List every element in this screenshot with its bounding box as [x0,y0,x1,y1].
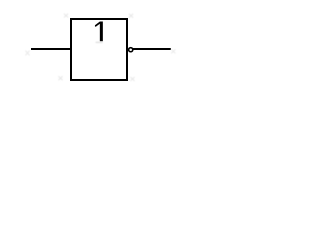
label "1" (gate function, drawn as path) [95,22,103,42]
inverter gate U1 (IEC box) [71,19,127,80]
wire: input segment [31,48,71,50]
ghost mark: box top-right corner [129,14,133,18]
ghost foot under label [96,42,103,43]
ghost mark: box top-left corner [64,14,68,18]
wire: output segment [133,48,171,50]
ghost mark: output wire end [171,49,175,53]
ghost mark: input wire end [25,51,29,56]
ghost mark: box bottom-right corner [130,77,134,81]
ghost mark: box bottom-left corner [58,76,62,80]
inversion bubble (output pin) [129,48,133,52]
